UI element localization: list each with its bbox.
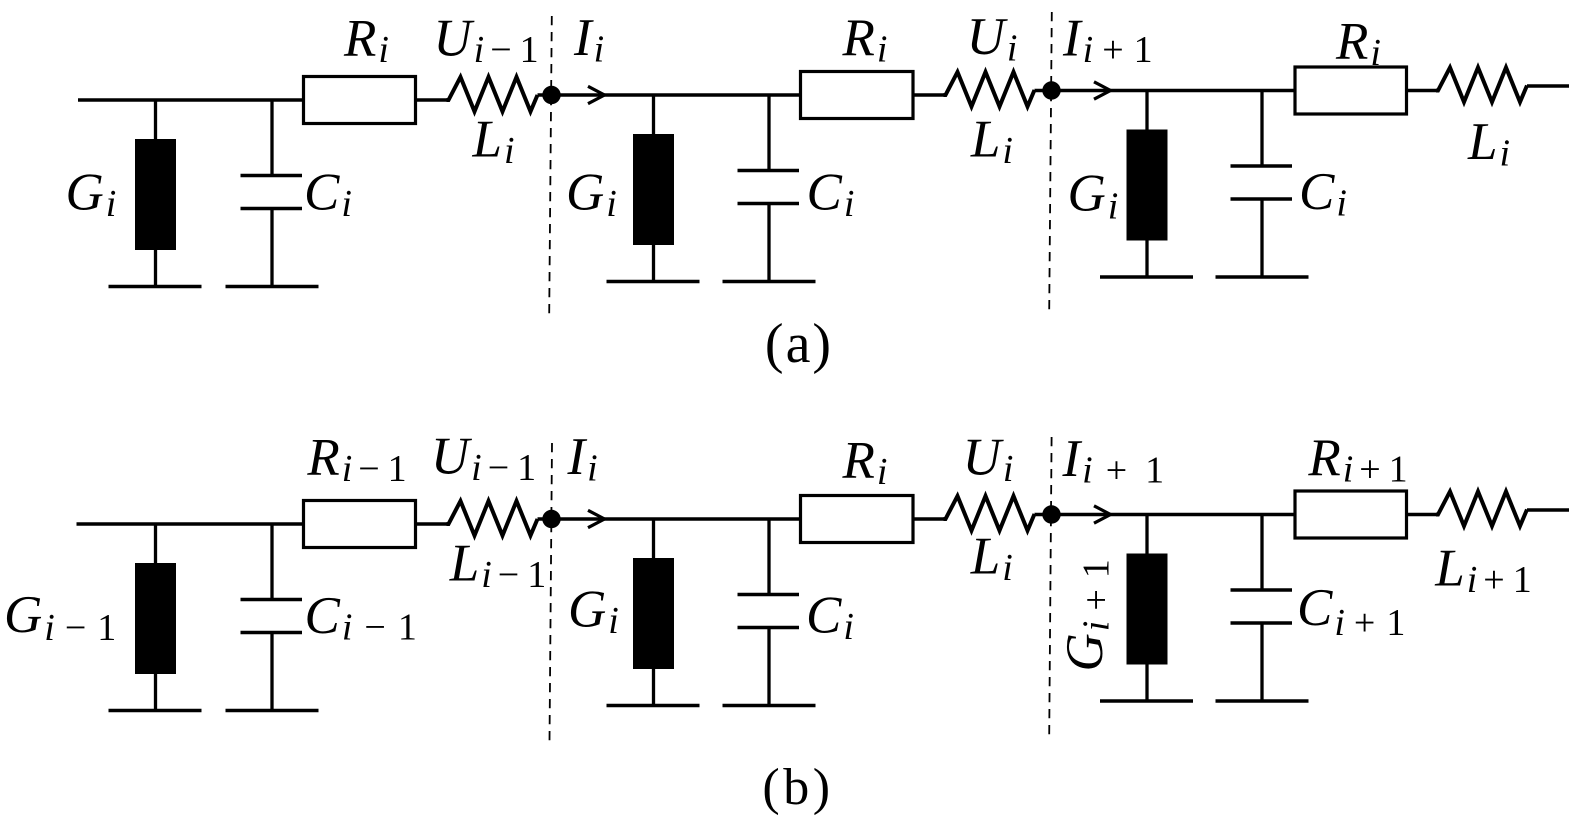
svg-text:(b): (b) — [762, 759, 833, 816]
svg-text:(a): (a) — [765, 313, 833, 375]
